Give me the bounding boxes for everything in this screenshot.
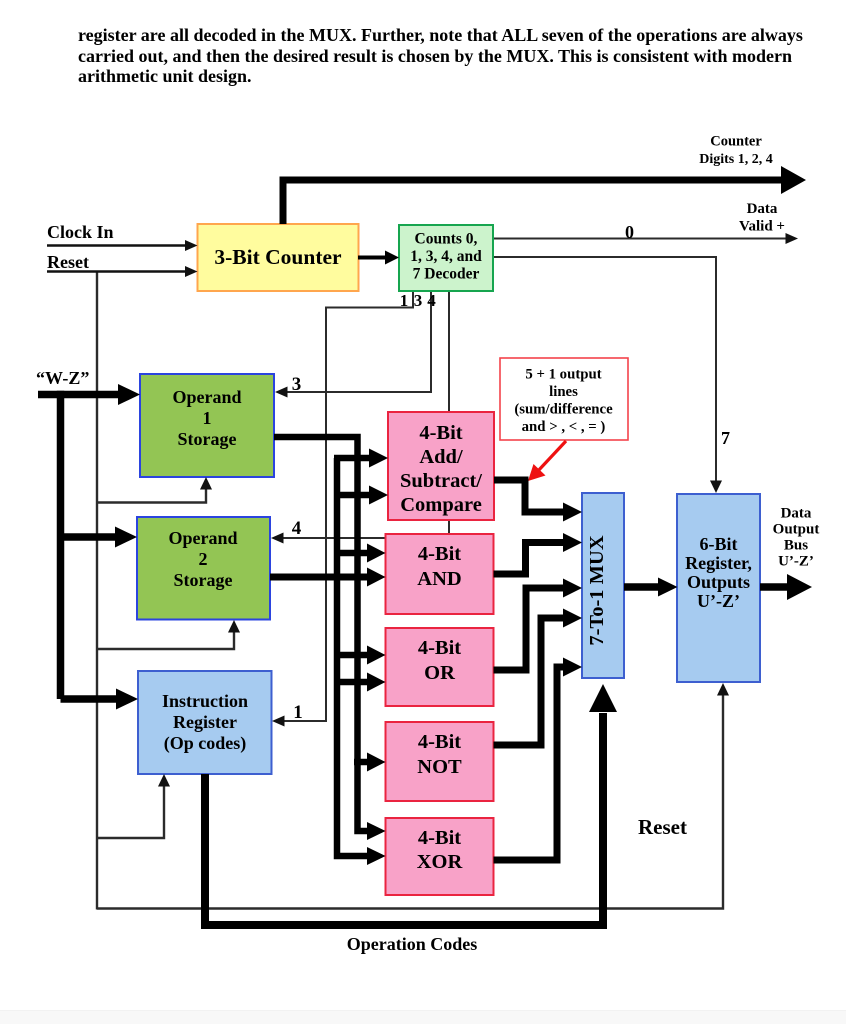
wire w-z bus vertical rail bbox=[57, 391, 65, 699]
label 3 under decoder bbox=[414, 291, 423, 310]
wire reset to counter bbox=[47, 266, 198, 277]
wire w-z bus to instruction register bbox=[61, 689, 139, 710]
svg-text:3: 3 bbox=[292, 374, 302, 395]
label 3 at operand 1 bbox=[292, 374, 302, 395]
wire bus rail A (operand 2) bbox=[337, 458, 386, 865]
svg-text:U’-Z’: U’-Z’ bbox=[697, 591, 740, 611]
svg-text:4-Bit: 4-Bit bbox=[418, 637, 461, 659]
svg-text:(sum/difference: (sum/difference bbox=[514, 402, 613, 418]
label 7 on register wire bbox=[721, 428, 730, 448]
wire operand 1 output to bus rail B bbox=[274, 437, 386, 840]
svg-text:1, 3, 4, and: 1, 3, 4, and bbox=[410, 248, 482, 265]
wire w-z input bus bbox=[38, 384, 140, 405]
label 4 under decoder bbox=[427, 291, 436, 310]
wire bus arrow into not input bbox=[354, 753, 386, 772]
wire clock in to counter bbox=[47, 240, 198, 251]
svg-text:(Op codes): (Op codes) bbox=[164, 733, 247, 754]
svg-text:4: 4 bbox=[292, 518, 302, 539]
label reset input bbox=[47, 252, 89, 272]
wire bus arrow into or input 2 bbox=[334, 673, 386, 692]
3-bit counter box bbox=[198, 224, 359, 291]
wire instruction register op codes to mux select bbox=[205, 684, 617, 925]
paragraph text bbox=[78, 25, 823, 87]
svg-text:Operation Codes: Operation Codes bbox=[347, 934, 478, 954]
6-bit register box bbox=[677, 494, 760, 682]
wire bus arrow into add subtract input 2 bbox=[334, 486, 388, 505]
svg-text:NOT: NOT bbox=[417, 756, 462, 778]
svg-text:Outputs: Outputs bbox=[687, 572, 750, 592]
4-bit and box bbox=[386, 534, 494, 614]
svg-text:OR: OR bbox=[424, 662, 455, 684]
svg-text:6-Bit: 6-Bit bbox=[700, 534, 738, 554]
svg-text:3: 3 bbox=[414, 291, 423, 310]
svg-text:4-Bit: 4-Bit bbox=[418, 827, 461, 849]
svg-text:Storage: Storage bbox=[174, 570, 233, 590]
wire data output bus from register bbox=[760, 574, 812, 600]
wire xor output to mux bbox=[494, 658, 583, 861]
wire add subtract output to mux bbox=[494, 480, 582, 522]
wire decoder output 4 to operand 2 storage (passes behind ALU boxes) bbox=[279, 291, 449, 538]
wire and output to mux bbox=[494, 533, 583, 574]
label counter digits bbox=[699, 134, 773, 168]
wire decoder output 1 to instruction register bbox=[280, 291, 413, 721]
label 1 under decoder bbox=[400, 291, 409, 310]
svg-text:XOR: XOR bbox=[417, 851, 463, 873]
svg-text:Clock In: Clock In bbox=[47, 222, 114, 242]
svg-text:2: 2 bbox=[199, 549, 208, 569]
svg-text:Data: Data bbox=[747, 201, 778, 217]
svg-text:lines: lines bbox=[549, 384, 578, 400]
wire bus arrow into or input 1 bbox=[334, 646, 386, 665]
7-to-1 mux box bbox=[582, 493, 624, 678]
callout red arrow bbox=[528, 441, 566, 481]
svg-text:1: 1 bbox=[203, 408, 212, 428]
instruction register box bbox=[138, 671, 272, 774]
svg-text:7 Decoder: 7 Decoder bbox=[413, 266, 480, 283]
wire or output to mux bbox=[494, 579, 583, 671]
svg-text:7-To-1 MUX: 7-To-1 MUX bbox=[586, 535, 608, 645]
svg-text:4: 4 bbox=[427, 291, 436, 310]
wire reset vertical rail bbox=[96, 271, 98, 910]
svg-text:Register: Register bbox=[173, 712, 237, 732]
svg-text:Storage: Storage bbox=[178, 429, 237, 449]
wire reset branch to instruction register load bbox=[97, 779, 164, 838]
svg-text:Digits 1, 2, 4: Digits 1, 2, 4 bbox=[699, 152, 773, 167]
svg-text:4-Bit: 4-Bit bbox=[418, 543, 461, 565]
arrowhead data valid bbox=[786, 233, 799, 244]
svg-text:3-Bit Counter: 3-Bit Counter bbox=[214, 245, 342, 269]
arrowhead reset into 6-bit register bottom bbox=[717, 683, 729, 696]
wire bus arrow into add subtract input 1 bbox=[334, 449, 388, 468]
arrowhead decoder 4 into operand 2 bbox=[271, 533, 284, 544]
svg-text:1: 1 bbox=[293, 702, 303, 723]
svg-text:Bus: Bus bbox=[784, 538, 808, 554]
counts decoder box bbox=[399, 225, 493, 291]
wire operand 2 output into and input 2 bbox=[270, 568, 386, 587]
svg-text:U’-Z’: U’-Z’ bbox=[778, 554, 814, 570]
label data output bus bbox=[773, 506, 820, 570]
svg-text:Add/: Add/ bbox=[419, 446, 463, 468]
label 0 on data valid wire bbox=[625, 222, 634, 242]
label data valid bbox=[739, 201, 785, 235]
arrowhead reset into operand 1 bottom bbox=[200, 477, 212, 490]
arrowhead decoder 1 into instruction register bbox=[272, 716, 285, 727]
wire counter digits output (top) bbox=[283, 166, 806, 224]
svg-text:Reset: Reset bbox=[47, 252, 89, 272]
svg-text:7: 7 bbox=[721, 428, 730, 448]
footer bar bbox=[0, 1010, 846, 1024]
wire bus arrow into and input 1 bbox=[334, 544, 386, 563]
arrowhead reset into instruction register bottom bbox=[158, 774, 170, 787]
svg-text:Instruction: Instruction bbox=[162, 691, 248, 711]
svg-text:4-Bit: 4-Bit bbox=[419, 422, 462, 444]
wire counter to decoder bbox=[358, 251, 399, 265]
svg-text:0: 0 bbox=[625, 222, 634, 242]
label clock in bbox=[47, 222, 114, 242]
wire reset branch to operand 2 storage load bbox=[97, 625, 234, 649]
svg-text:Compare: Compare bbox=[400, 494, 482, 516]
label reset near register bbox=[638, 815, 687, 839]
wire decoder count 7 to 6-bit register bbox=[493, 257, 716, 487]
svg-text:Subtract/: Subtract/ bbox=[400, 470, 482, 492]
4-bit add subtract compare box bbox=[388, 412, 494, 520]
svg-text:Output: Output bbox=[773, 522, 820, 538]
arrowhead decoder 3 into operand 1 bbox=[275, 387, 288, 398]
label 1 at instruction register bbox=[293, 702, 303, 723]
svg-text:5 + 1 output: 5 + 1 output bbox=[525, 367, 601, 383]
svg-text:Operand: Operand bbox=[168, 528, 237, 548]
wire not output to mux bbox=[494, 609, 583, 746]
svg-text:Register,: Register, bbox=[685, 553, 752, 573]
svg-text:and > , < , = ): and > , < , = ) bbox=[522, 419, 606, 435]
arrowhead decoder 7 into register top bbox=[710, 481, 722, 494]
operand 1 storage box bbox=[140, 374, 274, 477]
operand 2 storage box bbox=[137, 517, 270, 620]
label 4 at operand 2 bbox=[292, 518, 302, 539]
wire reset bottom run to 6-bit register bbox=[97, 687, 723, 909]
arrowhead reset into operand 2 bottom bbox=[228, 620, 240, 633]
wire decoder to data valid output bbox=[493, 238, 788, 240]
svg-text:Operand: Operand bbox=[172, 387, 241, 407]
wire decoder output 3 to operand 1 storage bbox=[284, 291, 431, 392]
wire reset branch to operand 1 storage load bbox=[97, 481, 206, 503]
svg-text:4-Bit: 4-Bit bbox=[418, 731, 461, 753]
wire mux output to 6-bit register bbox=[624, 578, 678, 597]
svg-text:Counts 0,: Counts 0, bbox=[415, 231, 478, 248]
label operation codes bbox=[347, 934, 478, 954]
4-bit or box bbox=[386, 628, 494, 706]
svg-text:Data: Data bbox=[781, 506, 812, 522]
4-bit xor box bbox=[386, 818, 494, 895]
svg-text:Counter: Counter bbox=[710, 134, 762, 150]
callout 5 plus 1 output lines bbox=[500, 358, 628, 440]
svg-text:AND: AND bbox=[417, 568, 461, 590]
wire w-z bus to operand 2 storage bbox=[61, 527, 138, 548]
svg-text:Valid +: Valid + bbox=[739, 219, 785, 235]
svg-text:“W-Z”: “W-Z” bbox=[36, 368, 89, 388]
svg-text:1: 1 bbox=[400, 291, 409, 310]
svg-text:Reset: Reset bbox=[638, 815, 687, 839]
4-bit not box bbox=[386, 722, 494, 801]
label w-z input bbox=[36, 368, 89, 388]
